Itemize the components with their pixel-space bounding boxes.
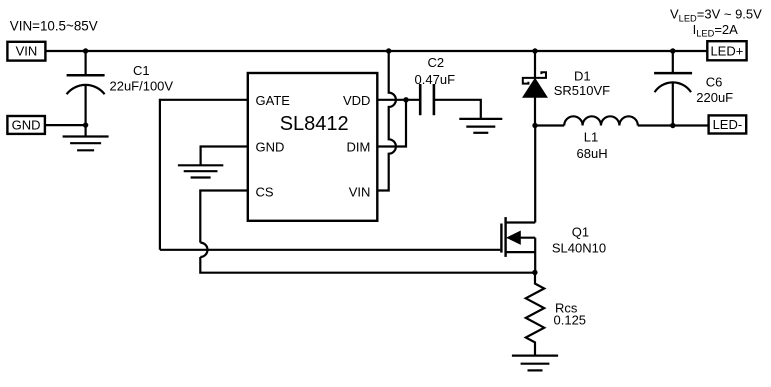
wire GATE pin to gate bus — [160, 100, 248, 250]
node VDD/DIM/C2 junction — [403, 97, 408, 102]
svg-text:L1: L1 — [584, 129, 598, 144]
svg-text:SR510VF: SR510VF — [554, 83, 610, 98]
svg-text:68uH: 68uH — [577, 146, 608, 161]
label Q1 value — [552, 225, 606, 256]
wire L1 node to LED- — [673, 124, 709, 126]
svg-text:Q1: Q1 — [572, 225, 589, 240]
node C6/L1/LED- junction — [670, 123, 675, 128]
wire VIN bus vertical (hops over VDD and DIM stubs) — [377, 51, 396, 191]
node Q1 source/CS/Rcs junction — [532, 270, 537, 275]
wire GND pin — [201, 147, 248, 166]
resistor Rcs — [526, 273, 544, 356]
svg-text:SL40N10: SL40N10 — [552, 240, 606, 255]
wire Q1 drain to switch node — [534, 126, 536, 223]
node GND/C1 junction — [83, 122, 88, 127]
svg-text:LED-: LED- — [713, 117, 743, 132]
svg-text:GATE: GATE — [256, 93, 291, 108]
transistor Q1 (N-MOSFET) — [501, 217, 535, 272]
svg-text:GND: GND — [256, 140, 285, 155]
svg-text:220uF: 220uF — [696, 90, 733, 105]
svg-text:VDD: VDD — [343, 93, 370, 108]
svg-text:LED+: LED+ — [710, 44, 743, 59]
label Rcs value — [554, 300, 587, 327]
svg-text:VIN: VIN — [349, 184, 371, 199]
label L1 value — [577, 129, 608, 160]
node rail/VIN-bus junction — [386, 48, 391, 53]
capacitor C6 — [654, 51, 692, 126]
svg-text:VIN=10.5~85V: VIN=10.5~85V — [10, 18, 98, 33]
diode D1 (Schottky, cathode up) — [523, 51, 547, 126]
svg-text:DIM: DIM — [347, 140, 371, 155]
terminal LED- — [709, 115, 747, 133]
ground (IC GND) — [178, 165, 223, 177]
node rail/D1 junction — [532, 48, 537, 53]
ground (input) — [63, 125, 109, 150]
node rail/C6 junction — [670, 48, 675, 53]
svg-text:D1: D1 — [574, 69, 591, 84]
svg-text:CS: CS — [256, 184, 274, 199]
svg-text:C6: C6 — [706, 75, 723, 90]
capacitor C1 — [67, 51, 105, 125]
wire C2 to ground — [434, 100, 481, 119]
svg-text:22uF/100V: 22uF/100V — [109, 79, 173, 94]
wire DIM pin riser to VDD node — [377, 100, 406, 147]
capacitor C2 — [420, 84, 434, 115]
svg-text:0.125: 0.125 — [554, 312, 587, 327]
wire VDD pin to C2 — [377, 99, 420, 101]
terminal LED+ — [707, 41, 746, 60]
inductor L1 — [535, 116, 673, 125]
svg-text:ILED=2A: ILED=2A — [693, 22, 739, 39]
wire gate bus to Q1 gate — [160, 249, 500, 251]
wire CS pin to sense line (with hop over gate bus) — [200, 191, 534, 273]
wire GND to C1 bottom — [45, 124, 86, 126]
ground (Rcs) — [512, 356, 558, 371]
label C2 value — [415, 55, 456, 87]
node rail/C1 junction — [83, 48, 88, 53]
svg-text:C1: C1 — [133, 63, 150, 78]
svg-text:C2: C2 — [427, 55, 444, 70]
label C6 value — [696, 75, 733, 105]
node switch node (D1/L1/Q1 drain) — [532, 123, 537, 128]
svg-text:GND: GND — [12, 118, 41, 133]
wire top rail VIN to LED+ — [45, 50, 707, 52]
terminal VIN — [7, 42, 45, 61]
IC U1 SL8412 — [248, 73, 377, 221]
svg-text:0.47uF: 0.47uF — [415, 72, 456, 87]
terminal GND — [7, 116, 45, 134]
svg-text:SL8412: SL8412 — [280, 113, 349, 135]
svg-text:VIN: VIN — [16, 44, 38, 59]
label D1 value — [554, 69, 610, 98]
label C1 value — [109, 63, 173, 94]
ground (C2) — [459, 119, 502, 133]
